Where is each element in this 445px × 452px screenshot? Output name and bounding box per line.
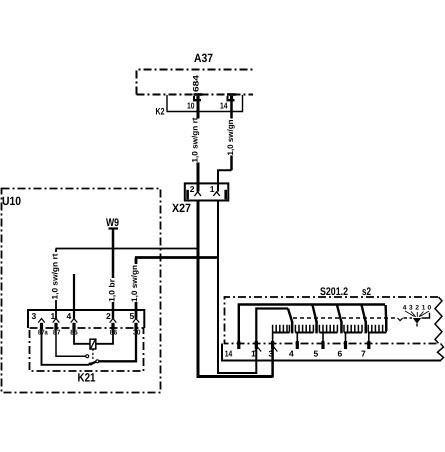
svg-text:1: 1 [251, 349, 256, 359]
svg-text:S201.2: S201.2 [320, 286, 348, 298]
svg-text:1,0 sw/gn: 1,0 sw/gn [226, 119, 235, 155]
svg-text:5: 5 [314, 349, 319, 359]
svg-text:W9: W9 [106, 217, 119, 229]
svg-text:2: 2 [190, 184, 195, 194]
svg-text:14: 14 [225, 349, 233, 359]
svg-text:s2: s2 [362, 286, 371, 298]
svg-text:6: 6 [338, 349, 343, 359]
svg-text:3: 3 [32, 311, 37, 321]
svg-text:K2: K2 [156, 107, 165, 118]
svg-text:14: 14 [220, 101, 228, 111]
svg-text:87: 87 [53, 330, 60, 337]
svg-text:5: 5 [130, 311, 135, 321]
svg-text:K21: K21 [78, 371, 96, 385]
svg-text:1,0 sw/gn rt: 1,0 sw/gn rt [50, 253, 59, 299]
svg-text:4: 4 [403, 305, 407, 312]
svg-text:1,0 sw/gn: 1,0 sw/gn [130, 265, 139, 302]
svg-text:1: 1 [422, 305, 426, 312]
svg-text:X27: X27 [172, 201, 191, 215]
svg-text:4: 4 [67, 311, 72, 321]
svg-text:3: 3 [409, 305, 413, 312]
svg-text:2: 2 [415, 305, 419, 312]
svg-text:1,0 br: 1,0 br [107, 279, 116, 302]
svg-text:86: 86 [110, 330, 117, 337]
svg-text:1: 1 [210, 184, 215, 194]
svg-text:30: 30 [133, 330, 140, 337]
svg-text:1: 1 [51, 311, 56, 321]
svg-text:684: 684 [192, 74, 201, 92]
svg-text:4: 4 [289, 349, 294, 359]
svg-text:1,0 sw/gn rt: 1,0 sw/gn rt [191, 117, 200, 162]
svg-text:3: 3 [269, 349, 274, 359]
svg-text:7: 7 [361, 349, 366, 359]
svg-text:10: 10 [187, 101, 195, 111]
svg-text:85: 85 [70, 330, 77, 337]
svg-text:0: 0 [427, 305, 431, 312]
svg-text:A37: A37 [194, 51, 213, 65]
svg-text:2: 2 [106, 311, 111, 321]
svg-text:87a: 87a [38, 330, 48, 337]
svg-text:U10: U10 [2, 194, 21, 208]
